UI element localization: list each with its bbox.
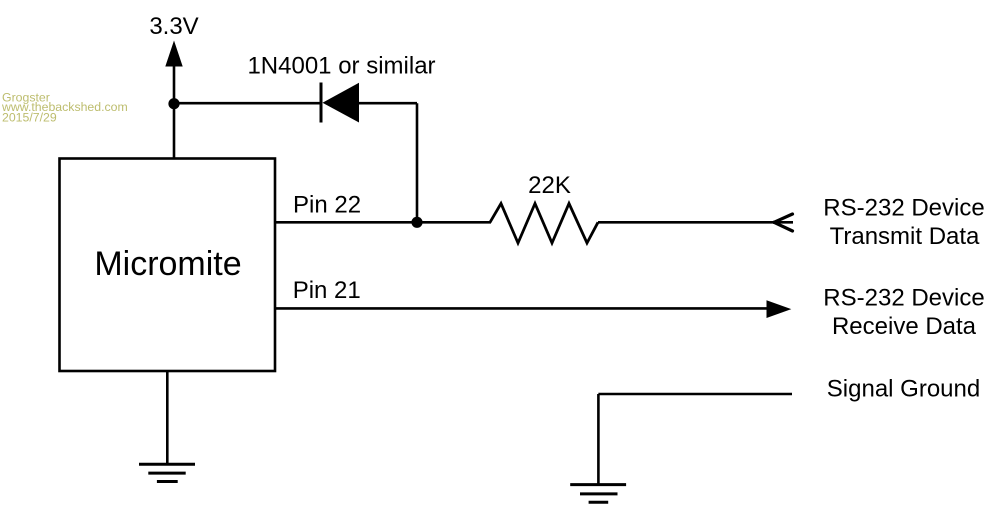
node junction on Pin 22 net bbox=[411, 217, 422, 228]
arrowhead open, RS-232 transmit data input bbox=[774, 214, 793, 231]
wire Micromite ground pin bbox=[166, 371, 169, 464]
svg-text:Micromite: Micromite bbox=[94, 245, 241, 283]
power 3.3V arrow bbox=[165, 41, 182, 105]
svg-text:Signal Ground: Signal Ground bbox=[827, 375, 980, 402]
ground symbol, signal ground bbox=[570, 485, 626, 503]
svg-text:RS-232 Device: RS-232 Device bbox=[823, 194, 984, 221]
wire signal ground horizontal bbox=[598, 393, 792, 396]
svg-text:Transmit Data: Transmit Data bbox=[830, 223, 980, 250]
wire Pin 21 to receive-data arrow bbox=[275, 307, 770, 310]
micromite U1 box bbox=[60, 159, 276, 372]
svg-text:1N4001 or similar: 1N4001 or similar bbox=[247, 53, 435, 80]
svg-text:2015/7/29: 2015/7/29 bbox=[2, 111, 57, 125]
watermark Grogster www.thebackshed.com 2015/7/29 bbox=[1, 91, 128, 125]
label RS-232 Device Receive Data bbox=[823, 284, 984, 340]
svg-text:Pin 22: Pin 22 bbox=[293, 192, 361, 219]
svg-text:3.3V: 3.3V bbox=[149, 13, 198, 40]
arrowhead filled, RS-232 receive data output bbox=[767, 300, 792, 318]
wire 3.3V rail down to Micromite top bbox=[173, 104, 176, 159]
svg-text:Pin 21: Pin 21 bbox=[293, 277, 361, 304]
wire 3.3V rail to diode cathode bbox=[174, 102, 321, 105]
wire diode anode to vertical drop bbox=[359, 102, 417, 105]
node junction at 3.3V rail bbox=[168, 98, 179, 109]
wire vertical drop from diode to Pin 22 net bbox=[416, 103, 419, 222]
diode D1 1N4001 bbox=[321, 83, 359, 123]
wire resistor to transmit-data arrow bbox=[598, 221, 793, 224]
resistor R1 22K zigzag bbox=[490, 204, 598, 244]
label RS-232 Device Transmit Data bbox=[823, 194, 984, 250]
svg-text:Receive Data: Receive Data bbox=[832, 313, 977, 340]
svg-text:22K: 22K bbox=[528, 172, 571, 199]
svg-text:RS-232 Device: RS-232 Device bbox=[823, 284, 984, 311]
wire signal ground vertical bbox=[597, 394, 600, 484]
wire Pin 22 to resistor bbox=[275, 221, 491, 224]
ground symbol, Micromite bbox=[139, 464, 195, 481]
